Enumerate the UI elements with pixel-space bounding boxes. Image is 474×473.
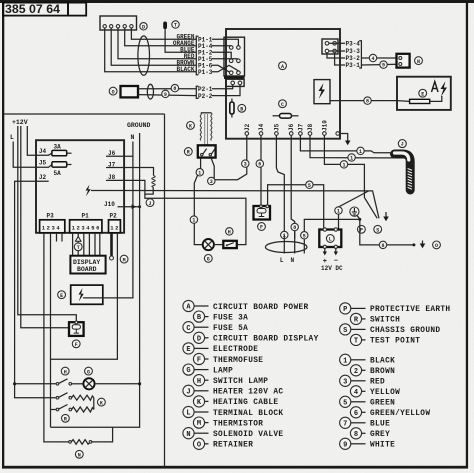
- svg-text:D: D: [197, 335, 201, 343]
- heating cable K tube center: [201, 112, 212, 114]
- label 6 green-yellow: [256, 160, 263, 167]
- label T test point: [74, 243, 82, 251]
- wire P3-4 stub: [329, 42, 345, 44]
- svg-text:8: 8: [366, 99, 369, 105]
- svg-text:P3: P3: [47, 213, 55, 220]
- svg-text:J2: J2: [39, 174, 47, 181]
- svg-text:RETAINER: RETAINER: [213, 442, 253, 450]
- svg-text:12: 12: [110, 224, 120, 231]
- wire green D pin5 to P1-1: [131, 28, 196, 39]
- label 3 red: [208, 177, 215, 184]
- label 8 grey: [291, 223, 298, 230]
- legend S CHASSIS GROUND: [340, 324, 441, 335]
- svg-text:S: S: [376, 228, 379, 234]
- svg-text:O: O: [112, 89, 115, 95]
- label 9 white: [380, 61, 387, 68]
- terminal block minus lead: [334, 245, 337, 248]
- svg-text:7: 7: [343, 420, 347, 428]
- wire grey igniter to electrode: [330, 100, 397, 102]
- test point arrow: [75, 237, 81, 242]
- wire +12V rail to J4 fuse: [27, 126, 52, 155]
- board P2 mating connector box: [226, 79, 244, 86]
- label E: [58, 291, 66, 299]
- test point T pill: [163, 22, 167, 30]
- wire black J5 to AC line L: [276, 135, 284, 239]
- legend C FUSE 5A: [183, 322, 248, 333]
- label 8 grey wire: [171, 84, 178, 91]
- wire red D pin3 to P1-5: [118, 28, 196, 59]
- connector D pin 4: [123, 25, 126, 28]
- svg-text:6: 6: [381, 243, 384, 249]
- svg-text:WHITE: WHITE: [370, 442, 395, 450]
- label 1 black: [335, 207, 342, 214]
- svg-text:N: N: [131, 134, 135, 141]
- label H switch lamp: [226, 228, 233, 235]
- lamp G 12V: [83, 378, 94, 389]
- P3 pin4 stub: [61, 233, 63, 242]
- svg-text:5: 5: [303, 233, 306, 239]
- fuse B pill on board: [230, 102, 234, 114]
- label 6 green-yellow: [379, 241, 386, 248]
- svg-text:1: 1: [337, 209, 340, 215]
- wire green thermofuse to terminal block: [268, 185, 324, 229]
- AC ground wire through grommet: [304, 219, 360, 253]
- label 1 black: [357, 147, 364, 154]
- svg-text:FUSE 3A: FUSE 3A: [213, 314, 248, 322]
- svg-text:BLACK: BLACK: [176, 66, 194, 73]
- wire J2 to DC rail: [15, 181, 56, 397]
- svg-text:+12V: +12V: [12, 119, 28, 126]
- heater tube coil hatching: [408, 169, 412, 190]
- AC line L stub: [283, 235, 285, 254]
- wire P1-3 stub crossing to pin: [212, 65, 238, 72]
- svg-text:BLUE: BLUE: [370, 421, 390, 429]
- border frame left: [2, 2, 4, 468]
- svg-text:SWITCH LAMP: SWITCH LAMP: [213, 378, 268, 386]
- heating cable coil row3: [72, 407, 94, 412]
- label N solenoid valve: [415, 57, 423, 65]
- svg-text:J5: J5: [39, 160, 47, 167]
- switch R contact 2: [209, 153, 211, 155]
- svg-text:GREEN: GREEN: [370, 400, 395, 408]
- svg-text:R: R: [64, 417, 67, 423]
- svg-text:G: G: [207, 257, 210, 263]
- connector D pin 5: [130, 25, 133, 28]
- svg-text:N: N: [78, 453, 81, 459]
- svg-text:LAMP: LAMP: [213, 367, 233, 375]
- P2 pin2 wire down: [51, 233, 118, 359]
- label 4 yellow: [369, 54, 376, 61]
- svg-text:J4: J4: [258, 123, 265, 131]
- label E electrode: [419, 89, 427, 97]
- +12V rail to thermofuse left: [21, 126, 69, 328]
- svg-text:N: N: [186, 431, 190, 439]
- svg-text:P1: P1: [82, 213, 90, 220]
- legend 7 BLUE: [340, 417, 391, 428]
- P1 mating pin row1: [229, 46, 233, 50]
- wire yellow P3-2 to solenoid: [361, 57, 396, 59]
- svg-text:N: N: [290, 257, 294, 264]
- wire P1-6 stub crossing to pin: [212, 65, 231, 72]
- svg-text:P3-1: P3-1: [346, 62, 361, 69]
- svg-text:P2: P2: [110, 213, 118, 220]
- wire P2-2 stub to board pin: [212, 85, 240, 96]
- P1 pin wires to display board: [72, 233, 74, 256]
- P3 pin c: [325, 49, 329, 53]
- svg-text:F: F: [260, 225, 263, 231]
- svg-text:D: D: [142, 24, 145, 30]
- svg-text:GREEN/YELLOW: GREEN/YELLOW: [370, 410, 430, 418]
- svg-text:1: 1: [198, 170, 201, 176]
- chassis ground arrow at junction: [385, 212, 387, 217]
- retainer O label circle: [109, 87, 117, 95]
- svg-text:5: 5: [308, 183, 311, 189]
- svg-text:C: C: [281, 102, 284, 108]
- wire rail to cable switch row3: [51, 409, 57, 411]
- svg-text:K: K: [100, 400, 103, 406]
- svg-text:9: 9: [382, 63, 385, 69]
- board bottom spare pin: [336, 132, 340, 136]
- wire J6 to N: [106, 142, 133, 157]
- wire black switch to lamp: [194, 159, 202, 245]
- svg-text:G: G: [186, 367, 190, 375]
- legend P PROTECTIVE EARTH: [340, 303, 451, 314]
- svg-text:E: E: [186, 346, 190, 354]
- P1 mating pin row2: [229, 59, 233, 63]
- svg-text:J: J: [401, 141, 404, 147]
- legend B FUSE 3A: [193, 311, 248, 322]
- svg-text:123456: 123456: [72, 224, 101, 231]
- electrode E enclosure box: [397, 77, 451, 110]
- wire J8 to coil bottom and h-row: [106, 180, 153, 194]
- svg-text:J: J: [186, 388, 190, 396]
- DC section separator horizontal: [3, 113, 165, 115]
- label H switch: [61, 367, 69, 375]
- label S chassis ground: [374, 225, 382, 233]
- svg-text:THERMISTOR: THERMISTOR: [213, 420, 263, 428]
- svg-text:J: J: [148, 201, 151, 207]
- title spare box: [68, 3, 86, 16]
- wire lamp to ground bus: [95, 383, 140, 385]
- svg-text:5A: 5A: [54, 170, 62, 177]
- igniter box on board: [314, 80, 330, 104]
- svg-text:3A: 3A: [54, 143, 62, 150]
- label F thermofuse: [258, 223, 266, 231]
- title box 385 07 64: [3, 3, 68, 16]
- switch row3 contacts: [56, 408, 59, 411]
- svg-text:RED: RED: [370, 379, 385, 387]
- switch row2 contacts: [56, 396, 59, 399]
- heater 120V tube outline: [395, 154, 411, 190]
- svg-text:O: O: [435, 243, 438, 249]
- connector D pin 2: [110, 25, 113, 28]
- svg-text:SOLENOID VALVE: SOLENOID VALVE: [213, 431, 283, 439]
- AC line N stub: [294, 231, 296, 254]
- igniter bolt on 12V board: [86, 185, 91, 197]
- wire white P3-1 to solenoid: [361, 63, 396, 66]
- cable grommet ellipse: [138, 36, 150, 75]
- svg-text:DISPLAY: DISPLAY: [73, 259, 100, 266]
- svg-text:GROUND: GROUND: [127, 122, 151, 129]
- terminal block L box: [319, 230, 341, 248]
- switch R box: [198, 145, 216, 157]
- legend G LAMP: [183, 364, 233, 375]
- svg-text:G: G: [87, 369, 90, 375]
- label R switch: [62, 414, 70, 422]
- svg-text:K: K: [189, 124, 192, 130]
- svg-text:8: 8: [293, 225, 296, 231]
- retainer box: [121, 86, 139, 97]
- P3 bracket: [359, 41, 361, 68]
- svg-text:P2-2: P2-2: [198, 93, 213, 100]
- legend F THERMOFUSE: [193, 353, 263, 364]
- svg-text:ELECTRODE: ELECTRODE: [213, 346, 258, 354]
- svg-text:H: H: [197, 378, 201, 386]
- svg-text:CIRCUIT BOARD POWER: CIRCUIT BOARD POWER: [213, 304, 309, 312]
- svg-text:BOARD: BOARD: [77, 266, 97, 273]
- svg-text:H: H: [228, 230, 231, 236]
- svg-text:J10: J10: [104, 201, 115, 208]
- svg-text:9: 9: [164, 92, 167, 98]
- wire grey J6 to AC line N: [291, 135, 295, 239]
- junction dot earth: [358, 218, 361, 221]
- svg-text:CHASSIS GROUND: CHASSIS GROUND: [370, 327, 440, 335]
- label A circuit board power: [279, 62, 287, 70]
- svg-text:E: E: [60, 293, 63, 299]
- wire brown D pin2 to P1-6: [111, 28, 196, 65]
- svg-text:O: O: [197, 441, 201, 449]
- svg-text:BLACK: BLACK: [370, 358, 395, 366]
- legend 3 RED: [340, 375, 385, 386]
- svg-text:8: 8: [354, 431, 358, 439]
- svg-text:1: 1: [192, 218, 195, 224]
- P1 bracket: [196, 36, 198, 75]
- svg-text:TERMINAL BLOCK: TERMINAL BLOCK: [213, 410, 283, 418]
- +12V rail to thermofuse top: [18, 126, 77, 322]
- wire solenoid to ground loop: [92, 427, 113, 442]
- DC section separator vertical: [164, 114, 166, 466]
- svg-text:J5: J5: [273, 123, 280, 131]
- svg-text:J7: J7: [297, 123, 304, 131]
- svg-text:E: E: [421, 91, 424, 97]
- svg-text:GREY: GREY: [370, 431, 390, 439]
- legend M THERMISTOR: [193, 417, 263, 428]
- label J heater 120V AC: [398, 140, 406, 148]
- label N solenoid: [75, 450, 83, 458]
- svg-text:HEATING CABLE: HEATING CABLE: [213, 399, 278, 407]
- svg-text:M: M: [123, 257, 126, 263]
- switch lamp h box: [223, 241, 237, 248]
- legend 6 GREEN/YELLOW: [350, 407, 430, 418]
- label 1 black: [196, 169, 203, 176]
- label J heater: [146, 199, 154, 207]
- svg-text:M: M: [197, 420, 201, 428]
- svg-text:TEST POINT: TEST POINT: [370, 338, 420, 346]
- label 1 black: [190, 216, 197, 223]
- wire h box up and left: [151, 198, 246, 244]
- legend K HEATING CABLE: [193, 396, 278, 407]
- legend 5 GREEN: [340, 396, 396, 407]
- svg-text:8: 8: [173, 86, 176, 92]
- border frame right: [466, 2, 468, 468]
- P3 pin3 stub: [56, 233, 58, 242]
- junction dot lamp row: [13, 382, 16, 385]
- P2 mating pin 1: [231, 81, 235, 85]
- svg-text:1: 1: [350, 156, 353, 162]
- P2 mating pin 2: [238, 81, 242, 85]
- legend O RETAINER: [193, 438, 253, 449]
- label 9 white wire: [162, 90, 169, 97]
- switch R contact 1: [201, 153, 203, 155]
- burner flame glyph: [432, 82, 439, 93]
- legend R SWITCH: [350, 313, 400, 324]
- ground bus vertical: [51, 133, 140, 427]
- label 1 black: [348, 154, 355, 161]
- wire P1-5 stub to board: [212, 58, 238, 60]
- P2 header box: [109, 220, 121, 233]
- P1 header box: [70, 220, 102, 233]
- legend 1 BLACK: [340, 354, 396, 365]
- wire E box to N rail: [83, 156, 133, 298]
- chassis ground arrow retainer: [422, 241, 424, 244]
- label D circuit board display connector: [140, 23, 147, 30]
- lightning bolt in igniter box: [319, 83, 326, 99]
- P3 pin d: [333, 49, 337, 53]
- lamp G symbol: [203, 239, 214, 250]
- label T test point: [172, 21, 179, 28]
- label O retainer: [433, 241, 441, 249]
- svg-text:4: 4: [354, 389, 358, 397]
- 12V circuit board outline: [36, 140, 124, 233]
- svg-text:L: L: [280, 257, 284, 264]
- svg-text:5: 5: [343, 399, 347, 407]
- svg-text:PROTECTIVE EARTH: PROTECTIVE EARTH: [370, 306, 450, 314]
- electrode bar: [397, 100, 410, 103]
- coil bridge wire: [93, 398, 95, 410]
- label G lamp: [85, 367, 93, 375]
- svg-text:J2: J2: [244, 123, 251, 131]
- circuit board A outline: [226, 29, 340, 139]
- svg-text:T: T: [77, 245, 80, 251]
- svg-text:FUSE 5A: FUSE 5A: [213, 325, 248, 333]
- svg-text:L: L: [186, 410, 190, 418]
- protective earth symbol: [350, 207, 359, 216]
- spark bolt glyph: [441, 81, 448, 97]
- svg-text:H: H: [64, 369, 67, 375]
- legend A CIRCUIT BOARD POWER: [183, 300, 309, 311]
- legend L TERMINAL BLOCK: [183, 406, 284, 417]
- bolt in E box: [79, 288, 84, 302]
- label 1 black: [340, 161, 347, 168]
- svg-text:F: F: [75, 342, 78, 348]
- AC line grommet ellipse: [265, 242, 307, 253]
- svg-text:SWITCH: SWITCH: [370, 317, 400, 325]
- wire L rail to J5 fuse: [13, 142, 52, 168]
- switch H contacts: [56, 383, 59, 386]
- svg-text:N: N: [417, 59, 420, 65]
- heater coil J 12V: [152, 176, 155, 188]
- svg-text:385 07 64: 385 07 64: [5, 4, 61, 16]
- legend J HEATER 120V AC: [183, 385, 284, 396]
- svg-text:B: B: [240, 107, 243, 113]
- label C fuse 5A: [279, 100, 287, 108]
- label 5 green: [301, 232, 308, 239]
- thermofuse F box left: [69, 322, 84, 336]
- connector D pin 3: [116, 25, 119, 28]
- wire white to P2-2: [138, 95, 196, 96]
- board P3 connector box: [322, 39, 338, 54]
- wire lamp to h box: [214, 244, 223, 246]
- legend 9 WHITE: [340, 438, 396, 449]
- wire P3-3 stub: [329, 50, 345, 52]
- border frame bottom: [2, 466, 468, 469]
- svg-text:A: A: [281, 64, 284, 70]
- legend H SWITCH LAMP: [193, 375, 268, 386]
- svg-text:1: 1: [359, 149, 362, 155]
- display board box: [70, 256, 105, 274]
- board P1 mating connector box: [224, 37, 245, 76]
- chassis ground stub at board: [340, 134, 348, 141]
- svg-text:THERMOFUSE: THERMOFUSE: [213, 357, 263, 365]
- wire branch to terminal block minus: [339, 191, 369, 229]
- thermofuse F box center: [254, 206, 271, 220]
- wire P3-2 from pin under box: [327, 53, 345, 58]
- legend E ELECTRODE: [183, 343, 258, 354]
- label M thermistor: [120, 255, 128, 263]
- svg-text:P: P: [343, 306, 347, 314]
- wire red J2 to switch: [211, 135, 247, 179]
- svg-text:9: 9: [343, 441, 347, 449]
- legend 2 BROWN: [350, 365, 395, 376]
- heating cable coil row2: [72, 395, 94, 400]
- label K heating cable: [187, 122, 195, 130]
- svg-text:C: C: [186, 325, 190, 333]
- AC cord grommet ellipse: [147, 84, 153, 99]
- svg-text:HEATER 120V AC: HEATER 120V AC: [213, 389, 283, 397]
- label R switch: [184, 148, 192, 156]
- svg-text:CIRCUIT BOARD DISPLAY: CIRCUIT BOARD DISPLAY: [213, 336, 319, 344]
- P3 pin b: [333, 42, 337, 46]
- svg-text:T: T: [174, 23, 177, 29]
- svg-text:J4: J4: [39, 148, 47, 155]
- svg-text:1: 1: [342, 163, 345, 169]
- svg-text:J10: J10: [321, 120, 328, 131]
- solenoid valve N box: [397, 54, 410, 68]
- legend D CIRCUIT BOARD DISPLAY: [193, 332, 318, 343]
- legend N SOLENOID VALVE: [183, 428, 284, 439]
- wire black D pin1 to P1-3: [105, 28, 196, 72]
- wire green-yellow earth to retainer: [360, 219, 414, 245]
- label B fuse 3A: [238, 104, 246, 112]
- label 5 green: [306, 181, 313, 188]
- P3 pin2 wire to ground loop: [50, 233, 52, 427]
- wire orange D pin4 to P1-4: [125, 28, 196, 46]
- label P protective earth: [358, 225, 366, 233]
- border frame top bar: [0, 0, 474, 3]
- svg-text:3: 3: [210, 179, 213, 185]
- wire P2-1 stub to board pin: [212, 85, 233, 89]
- label K heating cable: [98, 398, 106, 406]
- svg-text:2: 2: [354, 368, 358, 376]
- long ground wire from 12V board igniter: [91, 191, 379, 219]
- svg-text:R: R: [187, 150, 190, 156]
- svg-text:P3-3: P3-3: [346, 48, 361, 55]
- fuse C pill on board: [273, 115, 280, 117]
- solenoid valve coil row: [69, 441, 72, 444]
- wire grey to P2-1: [138, 88, 196, 90]
- terminal block plus lead: [323, 245, 326, 248]
- label F: [72, 340, 80, 348]
